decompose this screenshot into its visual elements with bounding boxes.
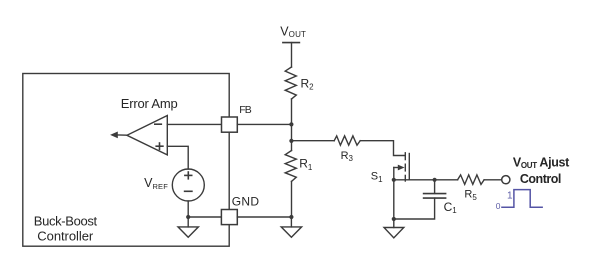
op-amp plus sign: [156, 145, 163, 147]
wire: GND pin to R1 bottom: [237, 216, 291, 218]
resistor R3: [334, 136, 360, 145]
VREF minus sign: [185, 190, 192, 192]
ground under S1: [393, 219, 395, 228]
ground under VREF: [187, 217, 189, 227]
svg-text:C1: C1: [444, 200, 458, 215]
terminal: VOUT adjust control (open circle): [502, 176, 510, 184]
wire: R2 to node A: [291, 99, 293, 124]
svg-text:Buck-Boost: Buck-Boost: [34, 213, 98, 228]
svg-text:GND: GND: [232, 194, 260, 208]
node B: R3 branch junction: [289, 139, 293, 143]
wire: VOUT to R2: [291, 43, 293, 67]
wire: op-amp non-inverting input to VREF: [167, 146, 188, 169]
svg-text:R1: R1: [299, 156, 313, 172]
svg-text:Controller: Controller: [37, 229, 94, 244]
wire: VREF bottom to gnd node: [187, 201, 189, 217]
wire: FB pin to feedback node: [237, 123, 291, 125]
VREF plus sign: [185, 174, 192, 176]
op-amp minus sign: [155, 123, 162, 125]
wire: source down to ground: [393, 168, 395, 220]
svg-text:VREF: VREF: [144, 176, 168, 191]
wire: source/gate horizontal run to C1/R5 node: [394, 179, 435, 181]
control pulse waveform: [501, 190, 543, 208]
resistor R5: [458, 175, 485, 185]
wire: R5 to control terminal: [484, 179, 501, 181]
capacitor C1 plates: [424, 193, 446, 195]
node A: FB / divider junction: [289, 122, 293, 126]
svg-text:R5: R5: [464, 189, 477, 202]
svg-text:1: 1: [507, 190, 513, 201]
wire: node A to node B: [291, 124, 293, 140]
svg-text:S1: S1: [371, 171, 383, 184]
op-amp U1 output arrowhead: [110, 132, 118, 139]
wire: R3 to transistor drain: [360, 141, 405, 156]
svg-text:FB: FB: [239, 104, 252, 116]
pin FB square: [222, 117, 238, 132]
voltage source VREF circle: [172, 169, 204, 201]
transistor S1 body arrow: [394, 167, 398, 169]
svg-text:VOUT Ajust: VOUT Ajust: [513, 155, 570, 170]
wire: node to R5: [435, 179, 458, 181]
ground under R1: [290, 217, 292, 227]
terminal VOUT bar: [283, 42, 300, 44]
svg-text:Control: Control: [520, 172, 561, 186]
node: VREF/GND junction: [186, 215, 190, 219]
svg-text:Error Amp: Error Amp: [121, 96, 178, 111]
wire: node B to R1: [291, 141, 293, 151]
node: C1 return junction: [392, 217, 396, 221]
resistor R1: [285, 151, 296, 182]
capacitor C1 bottom lead: [394, 198, 435, 219]
wire: node B to R3: [292, 140, 335, 142]
svg-text:VOUT: VOUT: [280, 25, 306, 40]
op-amp U1 (Error Amp) triangle: [127, 116, 167, 155]
pin GND square: [221, 210, 237, 225]
op-amp U1 output wire: [118, 134, 127, 136]
transistor S1 gate plate: [408, 154, 410, 180]
controller box (Buck-Boost Controller): [23, 74, 229, 247]
wire: R1 to ground node: [291, 181, 293, 217]
resistor R2: [285, 67, 296, 99]
node: source/body tie: [392, 178, 396, 182]
svg-text:R3: R3: [341, 150, 354, 163]
svg-text:R2: R2: [301, 76, 315, 91]
wire: junction to GND pin: [188, 216, 221, 218]
transistor S1 (NMOS) channel segments: [404, 153, 406, 160]
wire: op-amp inverting input to FB pin: [167, 123, 221, 125]
node: gate/C1/R5 junction: [433, 178, 437, 182]
node: R1/GND junction: [289, 215, 293, 219]
capacitor C1 top lead: [434, 180, 436, 194]
svg-text:0: 0: [496, 201, 501, 211]
